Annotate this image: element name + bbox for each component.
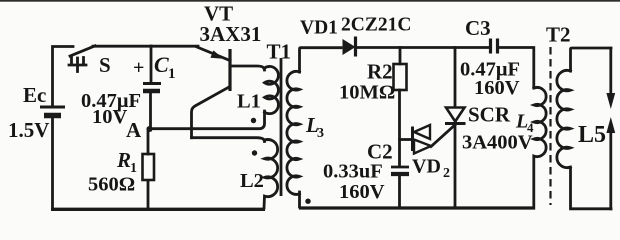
svg-text:R: R [116,148,131,172]
svg-text:10MΩ: 10MΩ [339,82,395,104]
svg-text:3AX31: 3AX31 [200,22,262,46]
svg-text:VD: VD [412,156,441,178]
svg-text:160V: 160V [474,77,520,99]
svg-text:10V: 10V [92,106,128,128]
svg-text:T1: T1 [267,40,292,64]
svg-text:A: A [126,118,142,142]
svg-text:1.5V: 1.5V [8,118,49,142]
svg-text:SCR: SCR [468,103,511,127]
svg-text:560Ω: 560Ω [88,174,135,196]
svg-text:VD1: VD1 [300,18,338,39]
svg-text:3A400V: 3A400V [462,132,533,154]
svg-text:1: 1 [168,66,176,82]
svg-text:L2: L2 [240,170,264,192]
svg-text:160V: 160V [339,181,385,203]
svg-text:T2: T2 [546,23,571,47]
svg-text:3: 3 [317,126,324,141]
svg-text:S: S [99,53,111,77]
svg-text:C3: C3 [465,16,491,40]
svg-text:C: C [154,52,169,77]
svg-text:R2: R2 [367,60,393,84]
svg-text:2CZ21C: 2CZ21C [341,15,411,36]
svg-text:2: 2 [443,166,450,181]
svg-text:Ec: Ec [23,83,46,107]
svg-text:0.33uF: 0.33uF [323,161,383,183]
svg-text:L5: L5 [578,122,606,148]
svg-text:+: + [133,57,144,79]
svg-text:4: 4 [527,120,534,135]
svg-text:L1: L1 [237,91,261,113]
